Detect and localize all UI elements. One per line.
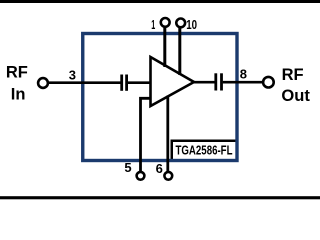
wire output capacitor to RF Out — [223, 81, 263, 84]
svg-text:In: In — [11, 86, 26, 104]
terminal RF In — [38, 78, 48, 88]
wire input capacitor to amplifier — [128, 81, 151, 84]
terminal pin 1 — [161, 18, 170, 27]
terminal pin 10 — [176, 19, 185, 28]
wire pin 10 to amplifier — [178, 26, 181, 76]
capacitor C2 (output DC block) — [216, 73, 222, 90]
terminal RF Out — [263, 77, 274, 88]
svg-text:3: 3 — [69, 67, 76, 82]
bottom border bar of figure — [0, 196, 320, 199]
svg-text:8: 8 — [240, 66, 247, 81]
svg-text:RF: RF — [6, 64, 28, 82]
wire pin 1 to amplifier — [163, 25, 166, 67]
terminal pin 6 — [164, 172, 172, 180]
svg-text:TGA2586-FL: TGA2586-FL — [176, 143, 233, 158]
svg-text:1: 1 — [151, 17, 155, 32]
package outline (blue box) — [83, 34, 237, 161]
capacitor C1 (input DC block) — [122, 75, 127, 91]
svg-text:5: 5 — [124, 160, 131, 175]
top border bar of figure — [0, 0, 320, 3]
svg-text:6: 6 — [156, 161, 163, 176]
wire RF In to input capacitor — [47, 81, 121, 84]
amplifier U1 — [151, 57, 195, 106]
svg-text:Out: Out — [281, 87, 310, 105]
wire pin 5 to amplifier — [141, 98, 152, 173]
terminal pin 5 — [137, 172, 145, 180]
wire pin 6 to amplifier — [166, 96, 169, 174]
wire amplifier to output capacitor — [193, 81, 215, 84]
label box TGA2586-FL — [172, 141, 237, 161]
svg-text:RF: RF — [282, 66, 304, 84]
svg-text:10: 10 — [186, 17, 197, 32]
